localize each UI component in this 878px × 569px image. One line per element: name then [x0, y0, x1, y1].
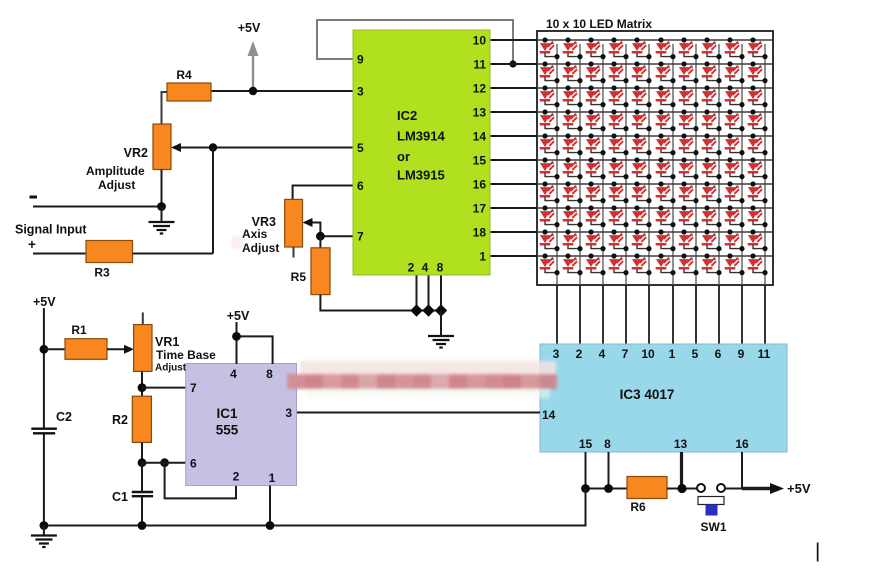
svg-text:10: 10 — [473, 34, 487, 48]
LED row 9 col 3 — [586, 229, 606, 251]
wire IC3 pin 8 down — [608, 452, 610, 489]
svg-text:LM3914: LM3914 — [397, 129, 445, 144]
matrix row wire 2 — [537, 63, 773, 65]
potentiometer VR1 — [134, 312, 180, 371]
LED row 1 col 6 — [656, 37, 676, 59]
wire IC3 pin 13 down (thick) — [680, 452, 683, 489]
matrix column wire 9 down to IC3 — [741, 44, 743, 285]
svg-text:8: 8 — [437, 261, 444, 275]
wire VR3 wiper to pin7 node — [303, 218, 321, 236]
LED row 5 col 4 — [609, 133, 629, 155]
svg-text:13: 13 — [473, 106, 487, 120]
label Amplitude Adjust — [86, 164, 145, 192]
LED row 4 col 10 — [748, 109, 768, 131]
op-loop wire pin9 to pin11 of IC2 — [317, 20, 513, 64]
svg-text:14: 14 — [542, 408, 556, 422]
watermark blur band — [287, 361, 557, 398]
wire IC2 pin 2 down — [416, 275, 418, 311]
svg-text:3: 3 — [285, 406, 292, 420]
LED row 2 col 2 — [563, 61, 583, 83]
svg-text:6: 6 — [190, 457, 197, 471]
plus input wire to R3 — [33, 253, 86, 255]
LED row 5 col 3 — [586, 133, 606, 155]
LED row 5 col 5 — [632, 133, 652, 155]
LED row 10 col 1 — [540, 253, 560, 275]
resistor R5 — [291, 236, 330, 294]
LED row 5 col 1 — [540, 133, 560, 155]
svg-text:6: 6 — [357, 179, 364, 193]
wire IC2 pin 14 to LED matrix row — [490, 135, 537, 137]
svg-text:Time Base: Time Base — [156, 348, 216, 362]
junction C1/rail — [138, 521, 147, 530]
svg-text:SW1: SW1 — [700, 520, 726, 534]
LED row 8 col 10 — [748, 205, 768, 227]
wire IC1 pin 3 to IC3 pin 14 — [297, 412, 541, 414]
LED row 1 col 1 — [540, 37, 560, 59]
svg-text:C1: C1 — [112, 490, 128, 504]
matrix column wire 5 down to IC3 — [648, 44, 650, 285]
svg-text:14: 14 — [473, 130, 487, 144]
ground below VR2 — [161, 207, 163, 222]
svg-text:3: 3 — [357, 85, 364, 99]
matrix column wire 1 down to IC3 — [556, 44, 558, 285]
LED row 2 col 8 — [702, 61, 722, 83]
junction pin2 — [410, 304, 422, 316]
LED row 8 col 1 — [540, 205, 560, 227]
LED row 7 col 4 — [609, 181, 629, 203]
svg-text:+5V: +5V — [787, 481, 811, 496]
svg-text:Adjust: Adjust — [98, 178, 135, 192]
LED row 4 col 8 — [702, 109, 722, 131]
label Axis Adjust — [242, 227, 279, 255]
LED row 2 col 9 — [725, 61, 745, 83]
svg-text:R6: R6 — [630, 500, 646, 514]
LED row 4 col 7 — [679, 109, 699, 131]
ground bottom left — [43, 526, 45, 536]
LED row 4 col 5 — [632, 109, 652, 131]
matrix row wire 9 — [537, 231, 773, 233]
LED row 4 col 1 — [540, 109, 560, 131]
LED row 10 col 9 — [725, 253, 745, 275]
LED row 10 col 6 — [656, 253, 676, 275]
matrix column wire 10 down to IC3 — [764, 44, 766, 285]
LED row 8 col 6 — [656, 205, 676, 227]
LED row 9 col 9 — [725, 229, 745, 251]
svg-text:VR2: VR2 — [124, 146, 148, 160]
svg-text:5: 5 — [357, 141, 364, 155]
supply rail wire pin15 to R6 — [586, 488, 628, 490]
wire switch to +5V arrow — [725, 488, 744, 490]
wire R6 to switch — [667, 488, 697, 490]
LED row 9 col 8 — [702, 229, 722, 251]
junction pin5 wire — [209, 143, 217, 151]
LED row 2 col 3 — [586, 61, 606, 83]
junction pin 13 — [677, 484, 686, 493]
svg-text:13: 13 — [674, 437, 688, 451]
svg-text:Amplitude: Amplitude — [86, 164, 145, 178]
LED row 7 col 9 — [725, 181, 745, 203]
LED row 3 col 5 — [632, 85, 652, 107]
LED row 4 col 4 — [609, 109, 629, 131]
cursor artifact — [817, 543, 819, 562]
potentiometer VR3 — [252, 199, 303, 247]
resistor R4 — [167, 68, 211, 101]
LED row 5 col 6 — [656, 133, 676, 155]
LED row 3 col 9 — [725, 85, 745, 107]
matrix row wire 7 — [537, 183, 773, 185]
matrix column wire 6 down to IC3 — [672, 44, 674, 285]
ground below IC2 — [440, 311, 442, 336]
LED row 8 col 5 — [632, 205, 652, 227]
resistor R3 — [86, 241, 133, 280]
svg-text:9: 9 — [357, 53, 364, 67]
matrix row wire 6 — [537, 159, 773, 161]
LED row 8 col 4 — [609, 205, 629, 227]
junction VR1/R2/pin7 — [138, 383, 147, 392]
LED row 8 col 3 — [586, 205, 606, 227]
svg-text:R5: R5 — [291, 270, 307, 284]
svg-text:1: 1 — [479, 250, 486, 264]
LED row 7 col 2 — [563, 181, 583, 203]
svg-text:11: 11 — [758, 347, 771, 361]
LED row 6 col 3 — [586, 157, 606, 179]
wire IC2 pin 5 to VR2 wiper (arrow) — [171, 143, 353, 152]
capacitor C2 — [31, 410, 72, 433]
matrix column wire 7 down to IC3 — [695, 44, 697, 285]
matrix column wire 3 down to IC3 — [602, 44, 604, 285]
svg-text:Axis: Axis — [242, 227, 268, 241]
svg-text:C2: C2 — [56, 410, 72, 424]
LED row 4 col 9 — [725, 109, 745, 131]
wire R4 left lead down to VR2 — [162, 92, 168, 124]
junction ground/rail — [40, 521, 49, 530]
wire IC2 pin 15 to LED matrix row — [490, 159, 537, 161]
LED row 7 col 5 — [632, 181, 652, 203]
LED row 10 col 3 — [586, 253, 606, 275]
LED row 8 col 9 — [725, 205, 745, 227]
LED row 9 col 1 — [540, 229, 560, 251]
junction pin1/rail — [266, 521, 275, 530]
LED row 7 col 7 — [679, 181, 699, 203]
wire R3 to vertical node — [133, 253, 214, 255]
svg-text:IC2: IC2 — [397, 108, 417, 123]
svg-text:4: 4 — [599, 347, 606, 361]
LED row 10 col 5 — [632, 253, 652, 275]
svg-text:+5V: +5V — [227, 309, 250, 323]
wire R2 bottom to pin 6 node — [141, 442, 143, 462]
wire pin6 node to IC1 pin 2 — [165, 463, 236, 499]
matrix column wire 8 down to IC3 — [718, 44, 720, 285]
LED row 5 col 7 — [679, 133, 699, 155]
LED row 2 col 10 — [748, 61, 768, 83]
svg-text:18: 18 — [473, 226, 487, 240]
LED row 1 col 10 — [748, 37, 768, 59]
svg-text:12: 12 — [473, 82, 487, 96]
wire VR1 bottom to pin 7 node — [141, 371, 143, 396]
matrix row wire 3 — [537, 87, 773, 89]
wire IC2 pin 4 down — [428, 275, 430, 311]
LED row 1 col 2 — [563, 37, 583, 59]
VR3 bottom stub — [293, 247, 295, 258]
wire IC1 pin 1 to bottom rail — [269, 486, 271, 526]
LED row 6 col 10 — [748, 157, 768, 179]
LED row 9 col 2 — [563, 229, 583, 251]
LED row 1 col 8 — [702, 37, 722, 59]
LED row 7 col 6 — [656, 181, 676, 203]
wire VR2 bottom to ground node — [161, 170, 163, 207]
svg-text:Adjust: Adjust — [155, 363, 187, 374]
LED row 1 col 3 — [586, 37, 606, 59]
wire IC2 pin 8 down — [440, 275, 442, 311]
LED row 3 col 10 — [748, 85, 768, 107]
svg-text:6: 6 — [715, 347, 722, 361]
junction on pin 11 wire — [509, 60, 516, 67]
svg-text:7: 7 — [622, 347, 629, 361]
capacitor C1 — [112, 490, 153, 504]
svg-text:R1: R1 — [71, 323, 87, 337]
LED row 9 col 6 — [656, 229, 676, 251]
svg-text:2: 2 — [233, 470, 240, 484]
svg-text:LM3915: LM3915 — [397, 168, 445, 183]
LED row 6 col 1 — [540, 157, 560, 179]
junction R2/C1 — [138, 458, 147, 467]
svg-text:R3: R3 — [94, 266, 110, 280]
junction pin6/pin2 branch — [160, 458, 169, 467]
LED row 6 col 4 — [609, 157, 629, 179]
LED row 3 col 2 — [563, 85, 583, 107]
LED row 2 col 1 — [540, 61, 560, 83]
LED row 8 col 2 — [563, 205, 583, 227]
LED row 3 col 1 — [540, 85, 560, 107]
matrix column wire 2 down to IC3 — [579, 44, 581, 285]
svg-text:Adjust: Adjust — [242, 241, 279, 255]
LED row 3 col 8 — [702, 85, 722, 107]
LED row 9 col 5 — [632, 229, 652, 251]
LED row 4 col 2 — [563, 109, 583, 131]
LED row 10 col 8 — [702, 253, 722, 275]
junction pin 15 — [581, 484, 590, 493]
left +5V vertical wire — [43, 308, 45, 429]
minus input wire — [33, 206, 162, 208]
svg-text:2: 2 — [576, 347, 583, 361]
svg-text:11: 11 — [473, 58, 486, 72]
svg-text:9: 9 — [738, 347, 745, 361]
svg-text:10: 10 — [641, 347, 655, 361]
svg-text:8: 8 — [266, 367, 273, 381]
svg-text:16: 16 — [473, 178, 487, 192]
wire C1 top — [141, 463, 143, 492]
svg-text:R2: R2 — [112, 413, 128, 427]
wire IC2 pin 11 to LED matrix row — [490, 63, 537, 65]
timer IC1 555 body — [186, 364, 297, 486]
junction minus/VR2 — [157, 202, 166, 211]
matrix row wire 8 — [537, 207, 773, 209]
wire junction down to R3 output — [212, 148, 214, 254]
LED matrix box — [537, 31, 773, 285]
svg-text:R4: R4 — [176, 68, 192, 82]
wire node to IC1 pin 6 — [142, 462, 186, 464]
LED row 10 col 10 — [748, 253, 768, 275]
wire IC2 pin 12 to LED matrix row — [490, 87, 537, 89]
svg-text:15: 15 — [473, 154, 487, 168]
wire R5 bottom to IC2 ground rail — [320, 295, 441, 311]
wire node to IC1 pin 7 — [142, 387, 186, 389]
wire +5V to IC1 pins 4 and 8 — [236, 322, 238, 364]
wire IC2 pin 16 to LED matrix row — [490, 183, 537, 185]
LED row 6 col 9 — [725, 157, 745, 179]
LED row 4 col 3 — [586, 109, 606, 131]
pink smudge artifact near VR3 — [231, 236, 245, 249]
junction +5V pin4 — [232, 332, 241, 341]
minus sign — [30, 196, 38, 199]
svg-text:4: 4 — [230, 367, 237, 381]
label Time Base Adjust — [155, 348, 216, 374]
wire node to IC2 pin 7 — [320, 235, 353, 237]
+5V supply arrow (gray) at IC2 pin 3 — [238, 21, 261, 91]
LED row 2 col 7 — [679, 61, 699, 83]
potentiometer VR2 — [124, 124, 171, 170]
LED row 5 col 9 — [725, 133, 745, 155]
svg-text:VR1: VR1 — [155, 335, 179, 349]
LED row 5 col 2 — [563, 133, 583, 155]
svg-text:Signal Input: Signal Input — [15, 223, 87, 237]
svg-text:or: or — [397, 149, 410, 164]
wire IC2 pin 1 to LED matrix row — [490, 255, 537, 257]
LED row 9 col 10 — [748, 229, 768, 251]
LED row 6 col 6 — [656, 157, 676, 179]
svg-text:IC1: IC1 — [216, 406, 238, 421]
svg-text:IC3 4017: IC3 4017 — [620, 387, 675, 402]
LED row 7 col 1 — [540, 181, 560, 203]
resistor R2 — [112, 396, 151, 442]
svg-text:+5V: +5V — [238, 21, 261, 35]
svg-text:555: 555 — [216, 423, 239, 438]
wire IC2 pin 17 to LED matrix row — [490, 207, 537, 209]
+5V arrow (right) — [742, 481, 811, 496]
LED row 2 col 4 — [609, 61, 629, 83]
LED row 4 col 6 — [656, 109, 676, 131]
svg-text:15: 15 — [579, 437, 593, 451]
svg-text:7: 7 — [357, 230, 364, 244]
svg-text:+: + — [28, 237, 36, 252]
svg-text:8: 8 — [604, 437, 611, 451]
LED row 1 col 4 — [609, 37, 629, 59]
LED row 7 col 8 — [702, 181, 722, 203]
matrix row wire 1 — [537, 39, 773, 41]
LED row 3 col 7 — [679, 85, 699, 107]
LED row 10 col 7 — [679, 253, 699, 275]
wire +5V to R1 — [44, 348, 65, 350]
wire IC2 pin 6 to VR3 top — [293, 186, 353, 200]
LED row 5 col 8 — [702, 133, 722, 155]
LED row 7 col 3 — [586, 181, 606, 203]
svg-text:3: 3 — [553, 347, 560, 361]
wire R1 to VR1 wiper (arrow) — [107, 345, 134, 354]
LED row 8 col 8 — [702, 205, 722, 227]
svg-text:1: 1 — [269, 471, 276, 485]
matrix row wire 4 — [537, 111, 773, 113]
junction pin4 — [422, 304, 434, 316]
wire IC2 pin 10 to LED matrix row — [490, 39, 537, 41]
svg-text:+5V: +5V — [33, 295, 56, 309]
wire C1 bottom to rail — [141, 496, 143, 525]
wire IC2 pin 13 to LED matrix row — [490, 111, 537, 113]
wire IC2 pin 18 to LED matrix row — [490, 231, 537, 233]
LED row 6 col 7 — [679, 157, 699, 179]
svg-text:10 x 10 LED Matrix: 10 x 10 LED Matrix — [546, 17, 652, 31]
LED row 2 col 6 — [656, 61, 676, 83]
LED row 5 col 10 — [748, 133, 768, 155]
LED row 10 col 4 — [609, 253, 629, 275]
wire IC3 pin 15 down — [585, 452, 587, 489]
matrix row wire 10 — [537, 255, 773, 257]
LED row 2 col 5 — [632, 61, 652, 83]
LED row 3 col 3 — [586, 85, 606, 107]
svg-text:7: 7 — [190, 381, 197, 395]
wire pin15 node down to bottom rail — [44, 489, 586, 526]
wire IC3 pin 16 down — [741, 452, 743, 489]
LED row 6 col 5 — [632, 157, 652, 179]
op-amp IC2 LM3914 body — [353, 30, 490, 275]
LED row 7 col 10 — [748, 181, 768, 203]
junction pin3/+5V — [249, 87, 257, 95]
junction +5V/R1 — [40, 345, 49, 354]
svg-text:5: 5 — [692, 347, 699, 361]
LED row 3 col 6 — [656, 85, 676, 107]
junction pin8 — [435, 304, 447, 316]
counter IC3 4017 body — [540, 344, 787, 452]
LED row 8 col 7 — [679, 205, 699, 227]
resistor R6 — [627, 477, 667, 515]
svg-text:16: 16 — [735, 437, 749, 451]
matrix row wire 5 — [537, 135, 773, 137]
matrix column wire 4 down to IC3 — [625, 44, 627, 285]
LED row 1 col 9 — [725, 37, 745, 59]
LED row 9 col 7 — [679, 229, 699, 251]
wire R4 to IC2 pin 3 — [211, 90, 353, 92]
LED row 10 col 2 — [563, 253, 583, 275]
svg-text:2: 2 — [408, 261, 415, 275]
svg-text:4: 4 — [422, 261, 429, 275]
resistor R1 — [65, 323, 107, 359]
junction pin7/R5 — [316, 232, 325, 241]
LED row 1 col 5 — [632, 37, 652, 59]
svg-text:1: 1 — [669, 347, 676, 361]
svg-text:17: 17 — [473, 202, 487, 216]
LED row 6 col 2 — [563, 157, 583, 179]
switch SW1 — [697, 484, 727, 534]
LED row 6 col 8 — [702, 157, 722, 179]
LED row 3 col 4 — [609, 85, 629, 107]
LED row 1 col 7 — [679, 37, 699, 59]
junction pin 8 — [604, 484, 613, 493]
LED row 9 col 4 — [609, 229, 629, 251]
